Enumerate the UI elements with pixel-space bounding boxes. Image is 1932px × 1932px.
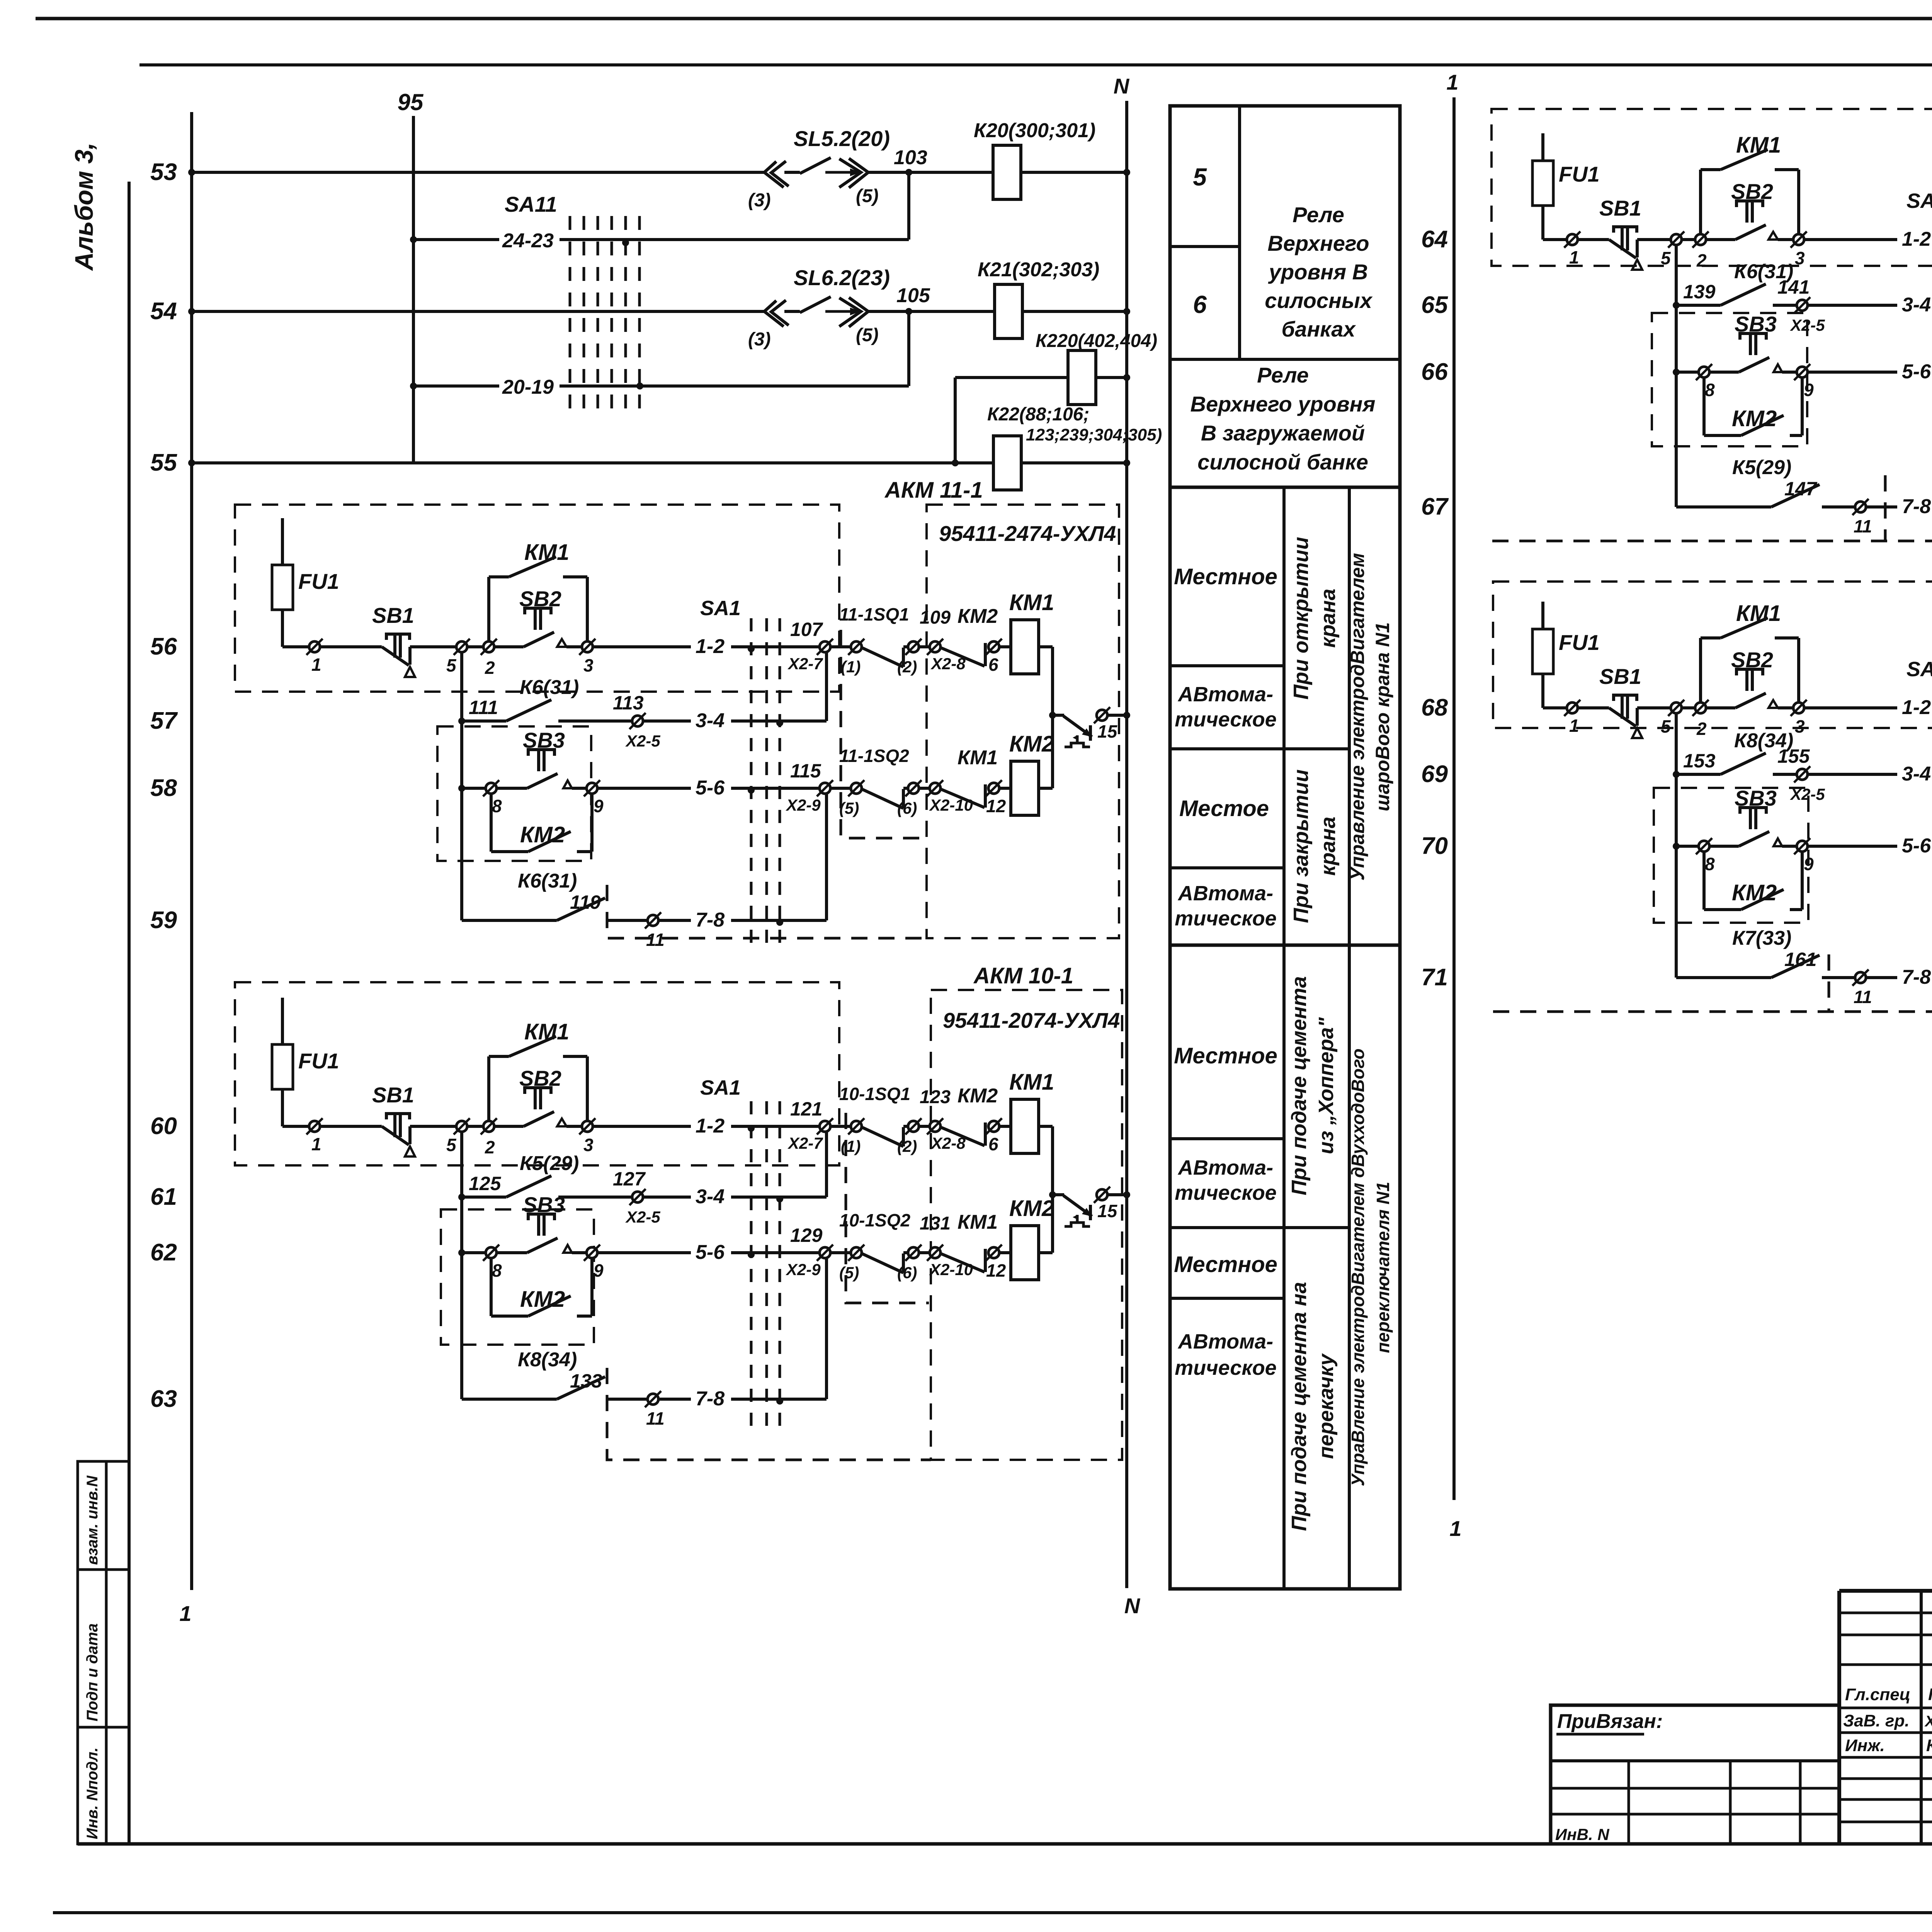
svg-text:SВ2: SВ2: [519, 587, 561, 611]
svg-text:КМ1: КМ1: [1736, 601, 1781, 626]
svg-text:АВтома-: АВтома-: [1177, 882, 1273, 905]
svg-text:SА1: SА1: [1906, 189, 1932, 213]
svg-text:5: 5: [446, 655, 457, 675]
wire row4 right АКМ 11-1: [658, 919, 691, 922]
wire row3 АКМ 11-1: [462, 787, 486, 790]
svg-text:6: 6: [988, 1134, 998, 1154]
coil KM2 АКМ 10-1: [999, 1251, 1011, 1254]
wire riser row2 АКМ 10-1: [825, 1132, 828, 1197]
svg-text:ПриВязан:: ПриВязан:: [1557, 1710, 1663, 1733]
svg-text:КМ1: КМ1: [524, 1019, 569, 1044]
bus 1 right vertical: [1452, 97, 1456, 1500]
wire row2 right АКМ 11-1: [643, 719, 691, 723]
wire K20 to N: [1021, 171, 1127, 174]
cable dashed lines АКМ 10-1: [750, 1101, 753, 1426]
svg-text:8: 8: [492, 796, 502, 816]
wire row2 АКМ 10-3: [1675, 713, 1678, 978]
svg-text:SL5.2(20): SL5.2(20): [794, 126, 890, 151]
svg-text:При закрытии: При закрытии: [1289, 769, 1313, 923]
terminal 5 АКМ 11-1: [454, 639, 470, 655]
svg-text:В загружаемой: В загружаемой: [1201, 421, 1365, 445]
wire row2 right АКМ 10-3: [1808, 773, 1897, 776]
svg-text:SВ2: SВ2: [519, 1066, 561, 1090]
wire row4 АКМ10-2: [1676, 505, 1771, 509]
node 105: [905, 308, 912, 315]
wire row3 АКМ 10-1: [462, 1251, 486, 1254]
svg-text:1-2: 1-2: [1902, 228, 1931, 250]
button SB1 АКМ10-2: [1614, 227, 1637, 233]
svg-text:АВтома-: АВтома-: [1177, 1156, 1273, 1179]
terminal 3 АКМ 10-3: [1791, 700, 1807, 716]
wire to SB1 АКМ 11-1: [320, 645, 382, 648]
coil KM1 АКМ 11-1: [999, 645, 1011, 648]
svg-text:X2-9: X2-9: [786, 1260, 821, 1279]
table middle verticals: [1238, 106, 1241, 359]
svg-text:SА1: SА1: [700, 1076, 741, 1099]
svg-text:Потехин: Потехин: [1928, 1685, 1932, 1704]
svg-text:109: 109: [920, 607, 951, 628]
wire 15 to N АКМ 10-1: [1107, 1193, 1127, 1196]
button SB3 АКМ 10-1: [497, 1251, 527, 1254]
svg-text:SВ3: SВ3: [523, 1192, 565, 1217]
terminal 8 АКМ10-2: [1696, 364, 1712, 380]
svg-text:уровня В: уровня В: [1268, 260, 1368, 284]
wire K220 to N: [1096, 376, 1127, 379]
svg-text:переключателя N1: переключателя N1: [1373, 1182, 1393, 1353]
wire row1 to SA1 АКМ 10-3: [1804, 706, 1897, 709]
node row3 cable АКМ 10-1: [748, 1251, 755, 1258]
wire row1 АКМ10-2: [1543, 238, 1567, 241]
svg-text:(3): (3): [748, 190, 771, 211]
terminal 2 АКМ 10-1: [481, 1118, 497, 1134]
contact KM1 aux loop АКМ 11-1: [487, 577, 490, 641]
svg-text:62: 62: [150, 1239, 177, 1266]
svg-text:тическое: тическое: [1175, 1356, 1277, 1379]
svg-text:11: 11: [1854, 987, 1872, 1007]
terminal X2-8 АКМ 11-1: [919, 645, 930, 648]
svg-text:63: 63: [150, 1386, 177, 1412]
svg-text:1-2: 1-2: [1902, 696, 1931, 719]
svg-text:20-19: 20-19: [502, 376, 554, 398]
svg-text:КМ2: КМ2: [520, 822, 565, 847]
svg-text:N: N: [1114, 74, 1130, 98]
wire branch to K220: [952, 459, 959, 466]
svg-text:5-6: 5-6: [1902, 835, 1931, 857]
terminal 2 АКМ 11-1: [481, 639, 497, 655]
svg-text:SВ2: SВ2: [1731, 179, 1773, 204]
svg-text:крана: крана: [1316, 816, 1340, 876]
svg-text:тическое: тическое: [1175, 1181, 1277, 1204]
svg-text:9: 9: [594, 796, 604, 816]
svg-text:15: 15: [1097, 721, 1118, 742]
wire to SB1 АКМ 10-1: [320, 1125, 382, 1128]
wire row4 right АКМ10-2: [1866, 505, 1897, 509]
wire row2 АКМ 10-1: [460, 1132, 463, 1399]
svg-text:8: 8: [492, 1260, 502, 1281]
svg-text:12: 12: [986, 1260, 1006, 1281]
svg-text:(2): (2): [897, 658, 917, 676]
svg-text:95411-2474-УХЛ4: 95411-2474-УХЛ4: [939, 521, 1116, 546]
svg-text:Реле: Реле: [1293, 202, 1344, 227]
relay coil K22: [993, 436, 1021, 490]
terminal X2-10 АКМ 11-1: [919, 787, 930, 790]
svg-text:123: 123: [920, 1087, 951, 1107]
svg-text:11: 11: [1854, 516, 1872, 536]
svg-text:УпраВление электродВигателем д: УпраВление электродВигателем дВухходоВог…: [1348, 1048, 1368, 1486]
svg-text:Местное: Местное: [1174, 1252, 1277, 1277]
svg-text:1: 1: [1569, 247, 1579, 267]
svg-text:3-4: 3-4: [1902, 763, 1931, 785]
svg-text:53: 53: [150, 159, 177, 185]
cable dashed lines АКМ 11-1: [750, 618, 753, 945]
svg-text:КМ1: КМ1: [1009, 590, 1054, 615]
changeover contact 15 АКМ 11-1: [1049, 712, 1056, 719]
svg-text:5: 5: [446, 1135, 457, 1155]
svg-text:FU1: FU1: [298, 1049, 339, 1073]
svg-text:При подаче цемента на: При подаче цемента на: [1287, 1282, 1311, 1531]
changeover contact 15 АКМ 10-1: [1049, 1191, 1056, 1198]
wire SB1 to node5 АКМ10-2: [1637, 238, 1671, 241]
svg-text:КМ2: КМ2: [520, 1287, 565, 1312]
svg-text:5: 5: [1661, 716, 1671, 736]
wire to SB1 АКМ10-2: [1578, 238, 1609, 241]
svg-text:(6): (6): [897, 799, 917, 817]
svg-text:61: 61: [150, 1184, 177, 1210]
terminal X2-5 АКМ 10-3: [1794, 766, 1810, 782]
svg-text:5-6: 5-6: [696, 1241, 725, 1264]
terminal 8 АКМ 10-1: [483, 1245, 499, 1261]
svg-text:9: 9: [1804, 380, 1814, 400]
fuse FU1 АКМ 10-1: [281, 998, 284, 1126]
svg-text:АКМ 10-1: АКМ 10-1: [973, 963, 1073, 988]
terminal 3 АКМ10-2: [1791, 231, 1807, 248]
svg-text:60: 60: [150, 1113, 177, 1139]
svg-text:КадыкоВа: КадыкоВа: [1926, 1736, 1932, 1755]
left margin box vzam: [78, 1461, 129, 1570]
relay coil K21: [995, 284, 1022, 338]
svg-text:Верхнего: Верхнего: [1267, 231, 1369, 255]
wire row3 АКМ 10-3: [1676, 845, 1699, 848]
contact KM1 aux loop АКМ10-2: [1699, 170, 1702, 234]
svg-text:3: 3: [583, 1135, 594, 1155]
terminal X2-5 АКМ 10-1: [629, 1189, 646, 1205]
svg-text:Гл.спец: Гл.спец: [1845, 1685, 1910, 1704]
svg-text:Инв. Nподл.: Инв. Nподл.: [84, 1747, 101, 1839]
svg-text:12: 12: [986, 796, 1006, 816]
button SB2 АКМ10-2: [1706, 238, 1735, 241]
wire SB1 to node5 АКМ 10-1: [410, 1125, 456, 1128]
wire SB1 to node5 АКМ 10-3: [1637, 706, 1671, 709]
svg-text:шароВого крана N1: шароВого крана N1: [1372, 622, 1393, 811]
svg-text:X2-5: X2-5: [625, 732, 660, 750]
svg-text:3-4: 3-4: [696, 709, 724, 732]
left margin box podp: [78, 1570, 129, 1727]
svg-text:3-4: 3-4: [696, 1185, 724, 1208]
node row1 cable АКМ 10-1: [748, 1125, 755, 1132]
terminal 6 АКМ 10-1: [986, 1118, 1002, 1134]
svg-text:SВ3: SВ3: [1735, 312, 1777, 336]
terminal X2-5 АКМ10-2: [1794, 297, 1810, 313]
svg-text:К5(29): К5(29): [1732, 456, 1791, 479]
terminal 9 АКМ10-2: [1794, 364, 1810, 380]
button SB3 АКМ10-2: [1709, 371, 1739, 374]
svg-text:6: 6: [988, 655, 998, 675]
svg-text:10-1SQ1: 10-1SQ1: [839, 1084, 910, 1104]
terminal 1 АКМ 10-3: [1564, 700, 1580, 716]
svg-text:(2): (2): [897, 1137, 917, 1155]
terminal 3 АКМ 10-1: [579, 1118, 595, 1134]
svg-text:крана: крана: [1316, 588, 1340, 648]
terminal 11 АКМ 10-3: [1852, 969, 1869, 986]
svg-text:SL6.2(23): SL6.2(23): [794, 265, 890, 290]
svg-text:Управление электродВигателем: Управление электродВигателем: [1347, 553, 1368, 881]
svg-text:(5): (5): [856, 186, 879, 206]
svg-text:FU1: FU1: [1559, 630, 1600, 655]
relay coil K220: [1068, 350, 1096, 405]
svg-text:При открытии: При открытии: [1289, 537, 1313, 699]
svg-text:(6): (6): [897, 1264, 917, 1282]
wire row4 АКМ 11-1: [462, 919, 557, 922]
terminal 129 X2-9 АКМ 10-1: [817, 1245, 833, 1261]
svg-text:5: 5: [1193, 163, 1207, 191]
coil KM1 АКМ 10-1: [999, 1125, 1011, 1128]
node row2 cable АКМ 10-1: [776, 1196, 783, 1202]
terminal 9 АКМ 10-1: [584, 1245, 600, 1261]
svg-text:15: 15: [1097, 1201, 1118, 1221]
terminal 5 АКМ 10-1: [454, 1118, 470, 1134]
svg-text:1-2: 1-2: [696, 635, 724, 658]
wire riser row4 АКМ 11-1: [825, 794, 828, 920]
svg-text:6: 6: [1193, 291, 1207, 318]
contact SL6.2: [764, 301, 784, 327]
svg-text:141: 141: [1777, 276, 1810, 298]
wire row1 to SA1 АКМ10-2: [1804, 238, 1897, 241]
wire row1 to SA1 АКМ 11-1: [593, 645, 691, 648]
wire riser row4 АКМ 10-1: [825, 1258, 828, 1399]
bus 95 vertical: [412, 116, 415, 463]
svg-text:КМ2: КМ2: [957, 605, 998, 628]
contact KM1 aux loop АКМ 10-3: [1699, 638, 1702, 702]
fuse FU1 АКМ 11-1: [281, 518, 284, 647]
svg-text:2: 2: [1696, 250, 1707, 270]
svg-text:К22(88;106;: К22(88;106;: [987, 404, 1089, 425]
terminal 6 АКМ 11-1: [986, 639, 1002, 655]
svg-text:71: 71: [1421, 964, 1448, 991]
svg-text:Инж.: Инж.: [1845, 1736, 1885, 1755]
terminal 107 X2-7 АКМ 11-1: [817, 639, 833, 655]
node row2 cable АКМ 11-1: [776, 719, 783, 726]
svg-text:95: 95: [398, 89, 424, 115]
node row4 cable АКМ 11-1: [776, 919, 783, 926]
svg-text:SВ3: SВ3: [1735, 786, 1777, 810]
svg-text:КМ2: КМ2: [1732, 880, 1777, 905]
svg-text:11: 11: [646, 1408, 665, 1429]
svg-text:103: 103: [894, 146, 927, 169]
svg-text:К20(300;301): К20(300;301): [974, 119, 1095, 142]
panel АКМ10-2 dashed boxes: [1492, 109, 1932, 266]
fuse FU1 АКМ10-2: [1541, 133, 1544, 240]
contact KM2 aux loop АКМ 10-1: [490, 1258, 493, 1316]
svg-text:7-8: 7-8: [696, 909, 724, 931]
wire KM2 coil out АКМ 10-1: [1039, 1251, 1053, 1254]
title block outline: [1839, 1589, 1932, 1593]
svg-text:69: 69: [1421, 761, 1448, 787]
wire row3 right АКМ 11-1: [597, 787, 691, 790]
wire branch 20-19: [410, 383, 417, 389]
terminal 115 X2-9 АКМ 11-1: [817, 780, 833, 796]
svg-text:10-1SQ2: 10-1SQ2: [839, 1210, 911, 1230]
wire row 53: [192, 171, 764, 174]
svg-text:FU1: FU1: [1559, 162, 1600, 186]
title block small grid verticals: [1920, 1591, 1923, 1844]
wire row 53 to K20: [868, 171, 993, 174]
svg-text:1: 1: [311, 655, 321, 675]
terminal 9 АКМ 10-3: [1794, 838, 1810, 854]
svg-text:ИнВ. N: ИнВ. N: [1555, 1825, 1610, 1844]
coil KM2 АКМ 11-1: [999, 787, 1011, 790]
button SB3 АКМ 10-3: [1709, 845, 1739, 848]
svg-text:X2-5: X2-5: [1790, 785, 1825, 803]
wire branch 24-23: [410, 236, 417, 243]
svg-text:Реле: Реле: [1257, 363, 1309, 387]
wire row4 right АКМ 10-3: [1866, 976, 1897, 979]
button SB1 АКМ 10-3: [1614, 695, 1637, 701]
wire KM2 coil out АКМ 11-1: [1039, 787, 1053, 790]
svg-text:11-1SQ1: 11-1SQ1: [839, 604, 909, 624]
svg-text:КМ2: КМ2: [1732, 406, 1777, 431]
terminal 5 АКМ 10-3: [1668, 700, 1684, 716]
terminal 9 АКМ 11-1: [584, 780, 600, 796]
svg-text:111: 111: [469, 697, 498, 718]
svg-text:3: 3: [1795, 716, 1805, 736]
contact KM1 aux loop АКМ 10-1: [487, 1056, 490, 1121]
svg-text:70: 70: [1421, 833, 1448, 859]
terminal 11 АКМ 11-1: [645, 912, 661, 929]
wire KM1 coil out АКМ 10-1: [1039, 1125, 1053, 1128]
svg-text:67: 67: [1421, 493, 1449, 520]
svg-text:(5): (5): [839, 799, 859, 817]
svg-text:129: 129: [790, 1225, 823, 1246]
svg-text:SА1: SА1: [700, 597, 741, 620]
wire row1 cables АКМ 11-1: [731, 645, 820, 648]
svg-text:24-23: 24-23: [502, 230, 554, 252]
svg-text:131: 131: [920, 1213, 951, 1234]
svg-text:68: 68: [1421, 694, 1448, 721]
contact KM2 aux loop АКМ 10-3: [1702, 852, 1706, 910]
node row1 cable АКМ 11-1: [748, 645, 755, 652]
terminal 5 АКМ10-2: [1668, 231, 1684, 248]
svg-text:Хрипушкина: Хрипушкина: [1924, 1713, 1932, 1730]
button SB2 АКМ 11-1: [494, 645, 524, 648]
svg-text:121: 121: [790, 1098, 822, 1120]
wire row1 to SA1 АКМ 10-1: [593, 1125, 691, 1128]
svg-text:(5): (5): [856, 325, 879, 345]
wire row1 АКМ 10-1: [282, 1125, 309, 1128]
terminal 1 АКМ10-2: [1564, 231, 1580, 248]
bus 1 left vertical: [190, 112, 193, 1590]
wire row2 right АКМ 10-1: [643, 1196, 691, 1199]
svg-text:перекачку: перекачку: [1315, 1353, 1338, 1459]
svg-text:(3): (3): [748, 329, 771, 350]
svg-text:139: 139: [1683, 281, 1716, 303]
svg-text:105: 105: [896, 284, 930, 307]
svg-text:8: 8: [1705, 380, 1715, 400]
wire row 55: [192, 461, 993, 464]
terminal 12 АКМ 10-1: [986, 1245, 1002, 1261]
svg-text:SА11: SА11: [505, 192, 557, 216]
wire row3 right АКМ 10-3: [1808, 845, 1897, 848]
privyazan box: [1551, 1705, 1839, 1844]
svg-text:107: 107: [790, 619, 823, 640]
svg-text:3-4: 3-4: [1902, 294, 1931, 316]
node row3 cable АКМ 11-1: [748, 787, 755, 794]
wire row2 АКМ 11-1: [460, 652, 463, 920]
wire row3 right АКМ10-2: [1808, 371, 1897, 374]
svg-text:57: 57: [150, 707, 178, 734]
terminal 121 X2-7 АКМ 10-1: [817, 1118, 833, 1134]
svg-text:161: 161: [1784, 949, 1816, 970]
wire KM1 coil out АКМ 11-1: [1039, 645, 1053, 648]
svg-text:95411-2074-УХЛ4: 95411-2074-УХЛ4: [943, 1008, 1120, 1032]
wire row3 АКМ10-2: [1676, 371, 1699, 374]
svg-text:тическое: тическое: [1175, 907, 1277, 930]
wire 15 to N АКМ 11-1: [1107, 714, 1127, 717]
svg-text:8: 8: [1705, 854, 1715, 874]
svg-text:(1): (1): [841, 1137, 861, 1155]
button SB1 АКМ 10-1: [386, 1114, 410, 1119]
svg-text:X2-9: X2-9: [786, 796, 821, 814]
svg-text:К220(402,404): К220(402,404): [1036, 331, 1157, 351]
wire row2 АКМ10-2: [1675, 245, 1678, 507]
svg-text:55: 55: [150, 449, 177, 476]
svg-text:КМ1: КМ1: [957, 747, 998, 769]
wire row1 АКМ 10-3: [1543, 706, 1567, 709]
svg-text:Местное: Местное: [1174, 1043, 1277, 1068]
svg-text:ЗаВ. гр.: ЗаВ. гр.: [1843, 1711, 1910, 1730]
svg-text:155: 155: [1777, 745, 1810, 767]
svg-text:(5): (5): [839, 1264, 859, 1282]
svg-text:127: 127: [613, 1168, 646, 1190]
contact KM2 aux loop АКМ 11-1: [490, 794, 493, 852]
switch SA11 dashed lines: [569, 216, 571, 408]
terminal 8 АКМ 11-1: [483, 780, 499, 796]
table middle outline: [1170, 106, 1400, 1589]
svg-text:Местое: Местое: [1179, 796, 1269, 821]
panel АКМ 10-1 dashed boxes: [235, 982, 839, 1165]
svg-text:К7(33): К7(33): [1732, 927, 1791, 949]
svg-text:X2-5: X2-5: [625, 1208, 660, 1226]
svg-text:SВ1: SВ1: [372, 1083, 414, 1107]
svg-text:Подп и дата: Подп и дата: [84, 1623, 101, 1721]
svg-text:2: 2: [485, 1137, 495, 1157]
terminal 8 АКМ 10-3: [1696, 838, 1712, 854]
svg-text:133: 133: [570, 1370, 602, 1392]
svg-text:5-6: 5-6: [696, 777, 725, 799]
junction dot 24-23: [622, 239, 629, 246]
svg-text:147: 147: [1784, 478, 1818, 500]
svg-text:КМ1: КМ1: [524, 540, 569, 565]
wire row 54 to K21: [868, 310, 995, 313]
wire row4 right АКМ 10-1: [658, 1398, 691, 1401]
fuse FU1 АКМ 10-3: [1541, 602, 1544, 708]
svg-text:SВ1: SВ1: [372, 603, 414, 628]
svg-text:К8(34): К8(34): [518, 1349, 577, 1371]
svg-text:56: 56: [150, 633, 177, 660]
svg-text:силосных: силосных: [1265, 288, 1373, 313]
border frame: [36, 17, 1932, 20]
contact KM2 aux loop АКМ10-2: [1702, 378, 1706, 435]
button SB1 АКМ 11-1: [386, 634, 410, 640]
